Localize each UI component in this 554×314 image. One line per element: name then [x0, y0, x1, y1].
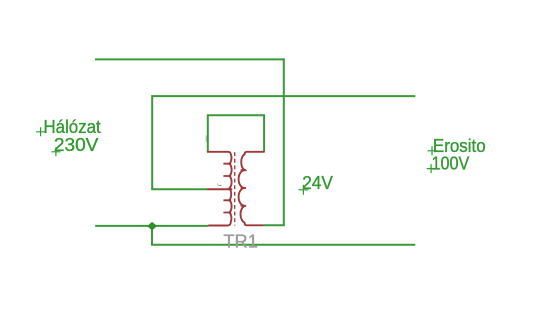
origin cross for Erosito — [428, 146, 437, 155]
junction dot on net N3 — [148, 222, 157, 230]
origin cross for 230V — [51, 147, 60, 156]
wire net N1 right vertical — [283, 58, 285, 225]
transformer TR1 secondary winding ticks — [241, 170, 247, 206]
wire net N1 bottom stub to TR1 pin — [264, 224, 285, 226]
wire net N2 tap stub to TR1 center tap — [151, 188, 208, 190]
transformer TR1 primary center tap lead — [208, 188, 233, 190]
wire net N2 left vertical — [151, 95, 153, 189]
origin cross for Hálózat — [36, 127, 45, 136]
wire net N3 bottom long horizontal — [151, 244, 415, 246]
tiny gray artifact near tap — [217, 184, 221, 185]
small gray tick near TR1 box — [205, 135, 207, 142]
wire net N3 bottom-left horizontal — [95, 225, 208, 227]
svg-text:TR1: TR1 — [223, 230, 258, 251]
transformer TR1 primary winding (petals bulge right toward core) — [207, 152, 232, 226]
transformer TR1 core dashed line — [234, 152, 236, 225]
wire net N3 vertical drop from junction — [151, 226, 153, 245]
svg-text:230V: 230V — [54, 134, 99, 155]
transformer TR1 primary winding ticks — [223, 164, 231, 213]
transformer TR1 secondary winding (petals bulge left toward core) — [239, 152, 265, 226]
transformer TR1 box (green outline, open bottom) — [208, 115, 264, 152]
svg-text:100V: 100V — [432, 154, 470, 174]
origin cross for 24V — [298, 185, 308, 195]
wire net N2 upper horizontal — [152, 95, 415, 97]
wire net N1 top horizontal — [95, 58, 285, 60]
origin cross for 100V — [427, 164, 436, 173]
